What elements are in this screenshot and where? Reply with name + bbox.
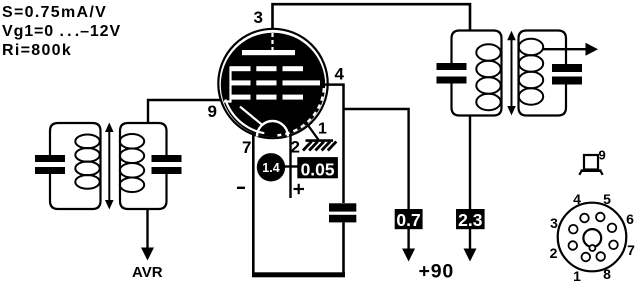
svg-text:1: 1 [573,268,581,283]
svg-text:+90: +90 [419,261,454,283]
tube U1 anode bar [242,50,295,55]
tube U1 electrode disc [221,33,325,137]
current label 0.7 box [395,209,423,229]
svg-text:2: 2 [291,138,300,157]
IFT2 secondary tank box [519,31,567,116]
socket pins [569,213,618,262]
svg-text:1.4: 1.4 [262,161,279,175]
IFT1 primary tank box [50,123,101,209]
wire: pin1 lead to ground [306,123,319,140]
IFT2 primary tank box [452,31,502,116]
IFT1 tuning arrow [108,128,110,204]
tube U1 grid dashes row1 [230,66,251,71]
wire 2.3 from IFT2 [469,116,471,210]
svg-text:5: 5 [603,191,611,207]
tube U1 grid dashes row2 [230,80,251,85]
IFT2 tuning arrow [511,36,513,110]
svg-text:8: 8 [603,266,611,282]
tube U1 envelope arc through disc (dashed) [277,88,324,135]
svg-text:Ri=800k: Ri=800k [2,42,72,59]
IFT2 primary capacitor [437,63,467,70]
tube U1 cathode dome [257,121,288,137]
tube U1 envelope arc through disc (solid) [225,100,264,134]
svg-text:4: 4 [335,65,345,84]
capacitor cathode bypass [329,203,356,211]
tube U1 envelope [218,29,327,138]
meter 1.4 stub to 0.05 [285,165,298,167]
wire 0.7 arrow [407,229,409,250]
svg-text:3: 3 [550,215,558,231]
svg-text:6: 6 [626,211,634,227]
wire: pin9 grid lead to IFT1 [148,100,221,124]
svg-text:9: 9 [599,148,606,163]
socket key hub [583,229,601,247]
wire: screen branch to 0.7 [344,109,409,209]
wire below bypass cap [342,222,345,275]
svg-text:Vg1=0 ...–12V: Vg1=0 ...–12V [2,23,121,40]
tube U1 grid dashes row3 [230,95,251,100]
svg-text:0.05: 0.05 [301,160,335,180]
minus sign [237,187,245,189]
IFT1 primary capacitor [35,155,65,162]
svg-text:4: 4 [573,191,581,207]
svg-text:0.7: 0.7 [396,210,420,230]
socket key notch [589,245,595,251]
svg-text:7: 7 [627,242,635,258]
capacitor C 0.05 value box [297,157,338,178]
svg-text:1: 1 [318,121,327,138]
top cap icon [584,155,598,170]
wire: cathode bottom bar [252,272,345,277]
IFT1 secondary capacitor [152,155,182,162]
svg-text:S=0.75mA/V: S=0.75mA/V [2,4,107,21]
ground symbol [303,141,336,151]
IFT2 secondary capacitor [552,64,582,72]
svg-text:9: 9 [208,102,217,121]
wire: pin4 anode lead to decoupling [322,85,344,203]
socket pin labels [550,191,636,284]
tube U1 grid side rod [224,67,231,102]
IFT1 secondary tank box [120,123,167,209]
svg-text:2.3: 2.3 [458,210,483,230]
wire: pin7 cathode lead [252,133,255,275]
wire 2.3 arrow [469,229,471,250]
current label 2.3 box [456,209,485,229]
svg-text:7: 7 [242,138,251,157]
wire: pin2 lead [289,134,291,198]
meter 1.4 cathode voltage [257,153,285,181]
IFT2 secondary coil L4 [519,39,543,105]
IFT1 primary coil L1 [75,135,99,189]
tube U1 g3-cathode strap [240,107,262,125]
tube U1 pin3 inner dashed lead [271,33,273,50]
IFT2 primary coil L3 [476,44,500,110]
wire AVR arrow [146,209,148,249]
IFT1 secondary coil L2 [120,134,144,192]
socket outline [558,203,627,272]
svg-text:2: 2 [550,245,558,261]
wire output arrow [542,48,587,50]
svg-text:3: 3 [254,8,263,27]
wire: anode top wire pin3 to output IFT [273,4,471,30]
svg-text:AVR: AVR [132,264,163,281]
plus sign [294,188,305,190]
